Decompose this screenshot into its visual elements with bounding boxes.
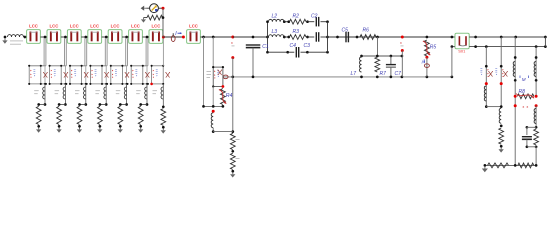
- svg-text:L3: L3: [272, 29, 278, 35]
- svg-text:C7: C7: [395, 71, 402, 77]
- svg-text:L2: L2: [272, 13, 278, 19]
- svg-text:R3: R3: [293, 29, 300, 35]
- svg-text:LCC: LCC: [131, 24, 140, 29]
- svg-text:x: x: [231, 41, 233, 45]
- svg-text:LCC: LCC: [90, 24, 99, 29]
- svg-text:LCC: LCC: [49, 24, 58, 29]
- svg-text:R8: R8: [519, 89, 526, 95]
- svg-text:R4: R4: [226, 93, 233, 99]
- svg-text:C3: C3: [304, 43, 311, 49]
- svg-text:x: x: [400, 41, 402, 45]
- svg-text:LCC: LCC: [70, 24, 79, 29]
- svg-text:C2: C2: [311, 13, 318, 19]
- svg-text:C5: C5: [342, 28, 349, 34]
- svg-text:S01: S01: [458, 49, 466, 54]
- svg-text:C4: C4: [290, 43, 297, 49]
- svg-text:R7: R7: [380, 71, 387, 77]
- svg-text:R6: R6: [363, 28, 370, 34]
- svg-text:LCC: LCC: [111, 24, 120, 29]
- svg-text:LCC: LCC: [151, 24, 160, 29]
- svg-text:LCC: LCC: [189, 24, 198, 29]
- svg-text:M: M: [522, 77, 526, 82]
- svg-text:x: x: [527, 105, 529, 109]
- svg-text:L7: L7: [351, 71, 357, 77]
- svg-text:R5: R5: [430, 45, 437, 51]
- svg-text:C1: C1: [262, 44, 269, 50]
- svg-text:LCC: LCC: [29, 24, 38, 29]
- svg-text:R2: R2: [293, 13, 300, 19]
- svg-text:x: x: [523, 105, 525, 109]
